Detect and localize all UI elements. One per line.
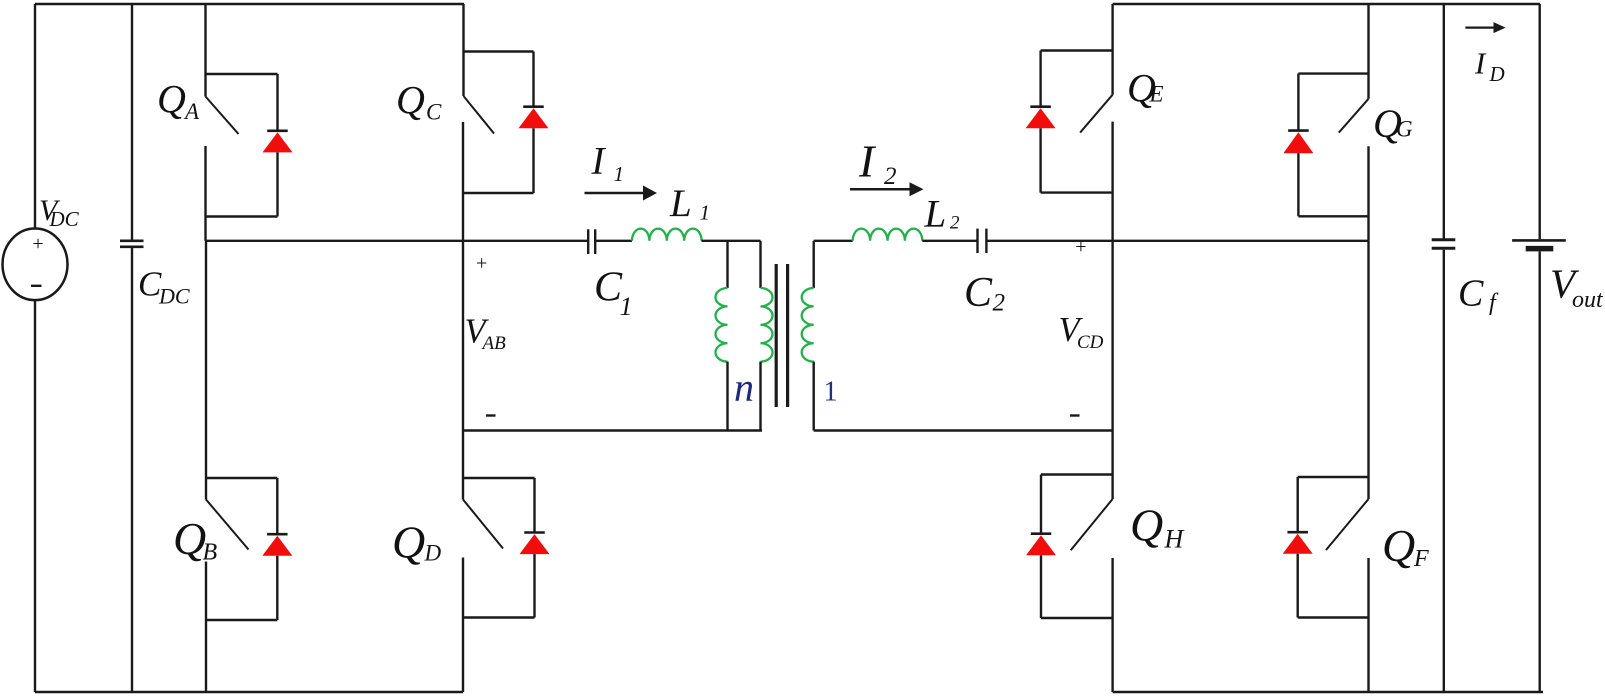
svg-text:A: A <box>183 99 200 124</box>
svg-text:Q: Q <box>173 513 206 564</box>
svg-text:C: C <box>1458 272 1484 314</box>
svg-text:I: I <box>591 140 607 183</box>
svg-text:DC: DC <box>49 207 80 231</box>
svg-text:G: G <box>1396 117 1413 142</box>
svg-text:C: C <box>964 270 993 316</box>
svg-text:DC: DC <box>158 284 190 309</box>
svg-text:+: + <box>1075 236 1086 258</box>
svg-text:1: 1 <box>824 377 838 408</box>
svg-text:1: 1 <box>614 162 625 186</box>
svg-text:1: 1 <box>620 292 633 321</box>
svg-text:CD: CD <box>1077 332 1104 353</box>
svg-text:F: F <box>1413 546 1429 572</box>
svg-text:out: out <box>1572 287 1604 313</box>
svg-text:C: C <box>426 100 442 125</box>
svg-text:E: E <box>1149 82 1164 107</box>
svg-text:2: 2 <box>993 290 1006 317</box>
svg-text:H: H <box>1164 525 1185 554</box>
svg-text:L: L <box>669 182 692 225</box>
svg-text:AB: AB <box>481 333 507 354</box>
svg-text:Q: Q <box>392 517 425 568</box>
svg-text:Q: Q <box>157 77 186 122</box>
svg-text:D: D <box>1489 62 1505 86</box>
svg-text:B: B <box>203 540 218 566</box>
svg-text:2: 2 <box>884 163 897 190</box>
svg-text:2: 2 <box>950 213 960 234</box>
svg-text:Q: Q <box>1382 520 1415 571</box>
svg-text:n: n <box>734 365 754 410</box>
svg-text:Q: Q <box>1130 500 1163 551</box>
svg-text:+: + <box>32 233 43 255</box>
svg-text:D: D <box>424 541 442 566</box>
svg-text:+: + <box>476 253 487 275</box>
svg-text:I: I <box>858 136 877 187</box>
svg-text:1: 1 <box>700 201 711 225</box>
svg-text:I: I <box>1474 46 1487 81</box>
svg-text:Q: Q <box>396 78 425 123</box>
svg-text:L: L <box>924 193 947 236</box>
